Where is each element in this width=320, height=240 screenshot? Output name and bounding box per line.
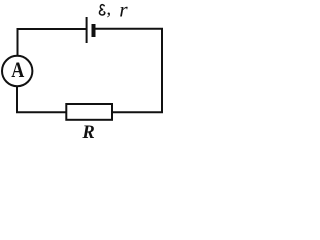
svg-text:A: A bbox=[11, 58, 24, 82]
svg-text:r: r bbox=[119, 0, 128, 21]
svg-text:R: R bbox=[81, 122, 94, 143]
svg-text:,: , bbox=[106, 0, 111, 20]
